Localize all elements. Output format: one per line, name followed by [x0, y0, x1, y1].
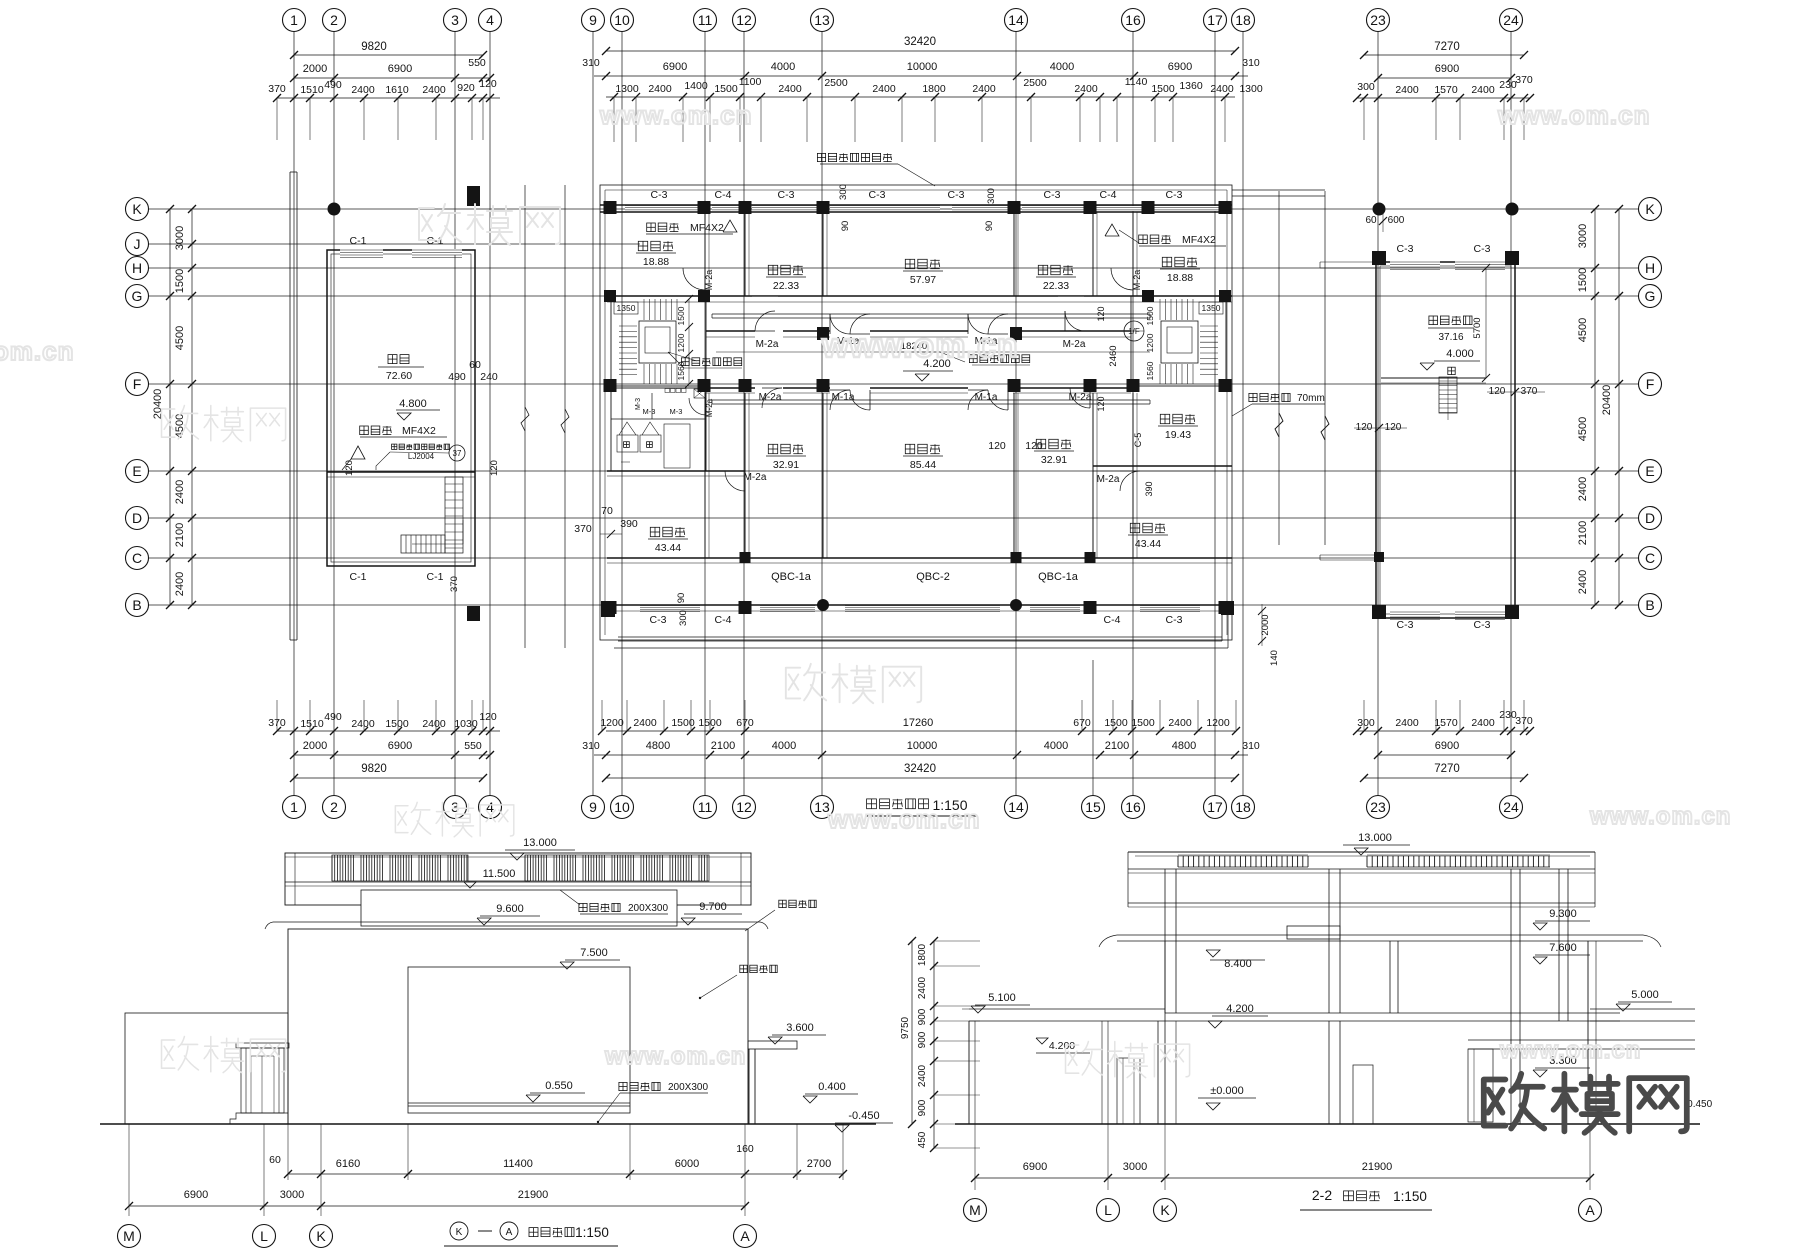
svg-text:6900: 6900 — [184, 1189, 208, 1201]
svg-text:1140: 1140 — [1125, 76, 1148, 88]
svg-text:QBC-1a: QBC-1a — [771, 571, 812, 583]
svg-text:2400: 2400 — [422, 84, 446, 96]
svg-text:2460: 2460 — [1108, 345, 1119, 366]
svg-text:J: J — [134, 236, 141, 252]
svg-text:4000: 4000 — [772, 740, 796, 752]
svg-text:QBC-2: QBC-2 — [916, 571, 950, 583]
svg-text:120: 120 — [1356, 422, 1373, 433]
svg-text:B: B — [1645, 597, 1654, 613]
svg-text:M-2a: M-2a — [744, 472, 767, 483]
svg-text:390: 390 — [620, 518, 638, 530]
svg-text:600: 600 — [1388, 215, 1405, 226]
svg-text:9.600: 9.600 — [496, 903, 524, 915]
svg-text:4800: 4800 — [646, 740, 670, 752]
svg-text:2400: 2400 — [1074, 83, 1098, 95]
svg-text:C-3: C-3 — [1166, 614, 1183, 626]
svg-text:E: E — [1645, 463, 1654, 479]
svg-text:18.88: 18.88 — [643, 256, 669, 268]
svg-text:M-2a: M-2a — [1063, 339, 1086, 350]
svg-text:M-2a: M-2a — [704, 270, 714, 291]
svg-text:C-3: C-3 — [1397, 619, 1414, 631]
svg-text:32.91: 32.91 — [1041, 454, 1067, 466]
svg-text:370: 370 — [449, 576, 460, 592]
svg-text:17: 17 — [1207, 799, 1223, 815]
svg-text:32420: 32420 — [904, 763, 936, 775]
svg-text:6000: 6000 — [675, 1158, 699, 1170]
svg-text:3.600: 3.600 — [786, 1022, 814, 1034]
svg-text:24: 24 — [1503, 12, 1519, 28]
svg-text:60: 60 — [469, 359, 481, 371]
svg-text:23: 23 — [1370, 799, 1386, 815]
svg-text:1800: 1800 — [922, 83, 946, 95]
svg-text:M-3: M-3 — [643, 407, 656, 416]
svg-text:20400: 20400 — [1601, 385, 1613, 416]
svg-text:2400: 2400 — [1210, 83, 1234, 95]
svg-text:QBC-1a: QBC-1a — [1038, 571, 1079, 583]
svg-text:E: E — [132, 463, 141, 479]
svg-text:1200: 1200 — [676, 333, 686, 352]
svg-text:490: 490 — [324, 79, 342, 91]
svg-text:C-1: C-1 — [350, 235, 367, 247]
svg-text:C-1: C-1 — [350, 571, 367, 583]
svg-text:120: 120 — [988, 440, 1006, 452]
svg-text:M: M — [969, 1202, 981, 1218]
svg-text:www.om.cn: www.om.cn — [1499, 1037, 1641, 1064]
svg-text:370: 370 — [268, 83, 286, 95]
svg-text:490: 490 — [324, 711, 342, 723]
svg-text:M-1a: M-1a — [975, 392, 998, 403]
svg-text:10: 10 — [614, 799, 630, 815]
svg-text:B: B — [132, 597, 141, 613]
svg-text:10: 10 — [614, 12, 630, 28]
svg-text:7270: 7270 — [1434, 41, 1460, 53]
svg-text:C-3: C-3 — [1474, 619, 1491, 631]
svg-text:120: 120 — [1096, 396, 1106, 411]
svg-text:M-2a: M-2a — [756, 339, 779, 350]
svg-text:1500: 1500 — [1151, 83, 1175, 95]
svg-text:1: 1 — [290, 799, 298, 815]
svg-text:A: A — [506, 1227, 513, 1238]
svg-text:900: 900 — [917, 1099, 928, 1116]
svg-text:2400: 2400 — [422, 718, 446, 730]
svg-text:1570: 1570 — [1434, 717, 1458, 729]
svg-text:2400: 2400 — [872, 83, 896, 95]
svg-text:1500: 1500 — [1145, 306, 1155, 325]
svg-text:2400: 2400 — [778, 83, 802, 95]
svg-text:C-3: C-3 — [1474, 243, 1491, 255]
svg-text:370: 370 — [1515, 74, 1533, 86]
svg-text:2400: 2400 — [633, 717, 657, 729]
svg-text:13.000: 13.000 — [523, 837, 557, 849]
svg-text:200X300: 200X300 — [628, 903, 668, 914]
svg-text:4000: 4000 — [1044, 740, 1068, 752]
svg-text:17: 17 — [1207, 12, 1223, 28]
svg-text:4500: 4500 — [1577, 417, 1589, 441]
svg-text:1300: 1300 — [615, 83, 639, 95]
svg-text:1300: 1300 — [1239, 83, 1263, 95]
svg-text:21900: 21900 — [518, 1189, 549, 1201]
svg-text:2400: 2400 — [648, 83, 672, 95]
svg-text:2400: 2400 — [351, 84, 375, 96]
svg-text:1400: 1400 — [684, 80, 708, 92]
svg-text:120: 120 — [1025, 440, 1043, 452]
svg-text:K: K — [316, 1228, 326, 1244]
svg-text:6900: 6900 — [1435, 63, 1459, 75]
svg-text:1500: 1500 — [676, 306, 686, 325]
svg-text:70mm: 70mm — [1297, 393, 1325, 404]
svg-text:1500: 1500 — [1104, 717, 1128, 729]
svg-text:160: 160 — [736, 1143, 754, 1155]
svg-text:2400: 2400 — [917, 976, 928, 999]
svg-text:2: 2 — [330, 12, 338, 28]
svg-text:D: D — [1645, 510, 1655, 526]
svg-text:M-3: M-3 — [670, 407, 683, 416]
svg-text:370: 370 — [1521, 386, 1538, 397]
svg-text:www.om.cn: www.om.cn — [1589, 803, 1731, 830]
svg-text:F: F — [1646, 376, 1655, 392]
svg-text:18.88: 18.88 — [1167, 272, 1193, 284]
svg-text:2400: 2400 — [917, 1064, 928, 1087]
svg-text:32420: 32420 — [904, 36, 936, 48]
svg-text:2700: 2700 — [807, 1158, 831, 1170]
svg-text:1560: 1560 — [1145, 361, 1155, 380]
svg-text:6900: 6900 — [663, 61, 687, 73]
svg-text:9: 9 — [589, 799, 597, 815]
svg-text:M-3: M-3 — [635, 398, 642, 410]
svg-text:7.600: 7.600 — [1549, 942, 1577, 954]
svg-text:1500: 1500 — [714, 83, 738, 95]
svg-text:12: 12 — [736, 799, 752, 815]
svg-text:5.000: 5.000 — [1631, 989, 1659, 1001]
svg-text:13.000: 13.000 — [1358, 832, 1392, 844]
svg-text:22.33: 22.33 — [1043, 280, 1069, 292]
svg-text:G: G — [1645, 288, 1656, 304]
svg-text:1030: 1030 — [454, 718, 478, 730]
svg-text:K: K — [456, 1227, 463, 1238]
svg-text:920: 920 — [457, 82, 475, 94]
svg-text:2500: 2500 — [1023, 77, 1047, 89]
svg-text:240: 240 — [480, 371, 498, 383]
svg-text:57.97: 57.97 — [910, 274, 936, 286]
svg-text:2-2: 2-2 — [1312, 1187, 1332, 1203]
svg-text:310: 310 — [1242, 57, 1260, 69]
svg-text:K: K — [132, 201, 142, 217]
svg-text:200X300: 200X300 — [668, 1082, 708, 1093]
svg-text:1610: 1610 — [385, 84, 409, 96]
svg-text:23: 23 — [1370, 12, 1386, 28]
svg-text:C-3: C-3 — [1166, 189, 1183, 201]
svg-text:2000: 2000 — [303, 740, 327, 752]
svg-text:4500: 4500 — [174, 326, 186, 350]
svg-text:450: 450 — [917, 1131, 928, 1148]
svg-text:120: 120 — [1096, 306, 1106, 321]
svg-text:2400: 2400 — [351, 718, 375, 730]
svg-text:120: 120 — [1489, 386, 1506, 397]
svg-text:±0.000: ±0.000 — [1210, 1085, 1244, 1097]
svg-text:M-2a: M-2a — [705, 398, 714, 417]
svg-text:310: 310 — [582, 740, 600, 752]
svg-text:1500: 1500 — [1577, 268, 1589, 292]
svg-text:37: 37 — [453, 449, 462, 458]
svg-text:C-4: C-4 — [715, 189, 732, 201]
svg-text:M-2a: M-2a — [759, 392, 782, 403]
svg-text:14: 14 — [1008, 12, 1024, 28]
svg-text:K: K — [1645, 201, 1655, 217]
svg-text:2400: 2400 — [174, 480, 186, 504]
svg-text:17260: 17260 — [903, 717, 934, 729]
svg-text:C-3: C-3 — [948, 189, 965, 201]
svg-text:2100: 2100 — [711, 740, 735, 752]
svg-text:3: 3 — [451, 12, 459, 28]
svg-text:5700: 5700 — [1472, 317, 1483, 338]
svg-text:140: 140 — [1269, 650, 1280, 666]
svg-text:2500: 2500 — [824, 77, 848, 89]
svg-text:1200: 1200 — [1206, 717, 1230, 729]
svg-text:2: 2 — [330, 799, 338, 815]
svg-text:4800: 4800 — [1172, 740, 1196, 752]
svg-text:85.44: 85.44 — [910, 459, 936, 471]
svg-text:550: 550 — [468, 57, 486, 69]
svg-text:6900: 6900 — [388, 740, 412, 752]
svg-text:10000: 10000 — [907, 740, 938, 752]
svg-text:M-2a: M-2a — [1132, 270, 1142, 291]
svg-text:1360: 1360 — [1179, 80, 1203, 92]
svg-text:1100: 1100 — [739, 76, 762, 88]
svg-text:2400: 2400 — [1168, 717, 1192, 729]
svg-text:3000: 3000 — [174, 226, 186, 250]
svg-text:300: 300 — [1357, 717, 1375, 729]
svg-text:32.91: 32.91 — [773, 459, 799, 471]
svg-text:120: 120 — [489, 460, 500, 476]
svg-text:24: 24 — [1503, 799, 1519, 815]
svg-text:MF4X2: MF4X2 — [1182, 234, 1216, 246]
svg-text:9820: 9820 — [361, 763, 387, 775]
svg-text:L: L — [260, 1228, 268, 1244]
svg-text:2400: 2400 — [1395, 717, 1419, 729]
svg-text:C-5: C-5 — [1133, 433, 1143, 448]
svg-text:2000: 2000 — [303, 63, 327, 75]
svg-text:2400: 2400 — [1577, 570, 1589, 594]
svg-text:C-3: C-3 — [1044, 189, 1061, 201]
svg-text:60: 60 — [1365, 215, 1377, 226]
svg-text:72.60: 72.60 — [386, 370, 412, 382]
svg-text:19.43: 19.43 — [1165, 429, 1191, 441]
svg-text:www.om.cn: www.om.cn — [827, 804, 981, 834]
svg-text:4000: 4000 — [1050, 61, 1074, 73]
svg-text:1200: 1200 — [1145, 333, 1155, 352]
svg-text:1500: 1500 — [671, 717, 695, 729]
svg-text:3000: 3000 — [280, 1189, 304, 1201]
svg-text:90: 90 — [840, 221, 851, 232]
svg-text:14: 14 — [1008, 799, 1024, 815]
svg-text:2400: 2400 — [1395, 84, 1419, 96]
svg-text:22.33: 22.33 — [773, 280, 799, 292]
svg-text:2100: 2100 — [1577, 521, 1589, 545]
svg-text:11: 11 — [698, 12, 713, 28]
svg-text:-0.450: -0.450 — [848, 1110, 879, 1122]
svg-text:490: 490 — [448, 371, 466, 383]
svg-text:4000: 4000 — [771, 61, 795, 73]
svg-text:F: F — [133, 376, 142, 392]
svg-text:0.400: 0.400 — [818, 1081, 846, 1093]
svg-text:1: 1 — [290, 12, 298, 28]
svg-text:1570: 1570 — [1434, 84, 1458, 96]
svg-text:1560: 1560 — [676, 361, 686, 380]
svg-text:390: 390 — [1144, 481, 1154, 496]
svg-text:60: 60 — [269, 1154, 281, 1166]
svg-text:H: H — [132, 260, 142, 276]
svg-text:6900: 6900 — [388, 63, 412, 75]
svg-text:1/F: 1/F — [1128, 327, 1140, 336]
svg-text:C-3: C-3 — [778, 189, 795, 201]
svg-text:70: 70 — [601, 505, 613, 517]
svg-text:1500: 1500 — [174, 269, 186, 293]
svg-text:10000: 10000 — [907, 61, 938, 73]
svg-text:9820: 9820 — [361, 41, 387, 53]
svg-text:www.om.cn: www.om.cn — [599, 100, 753, 130]
svg-text:C-1: C-1 — [427, 571, 444, 583]
svg-text:4: 4 — [486, 12, 494, 28]
svg-text:6160: 6160 — [336, 1158, 360, 1170]
svg-text:D: D — [132, 510, 142, 526]
svg-text:www.om.cn: www.om.cn — [821, 327, 1019, 365]
svg-text:90: 90 — [676, 593, 687, 604]
svg-text:7270: 7270 — [1434, 763, 1460, 775]
svg-text:K: K — [1160, 1202, 1170, 1218]
svg-text:G: G — [132, 288, 143, 304]
svg-text:2400: 2400 — [1471, 717, 1495, 729]
svg-text:300: 300 — [838, 184, 849, 200]
svg-text:5.100: 5.100 — [988, 992, 1016, 1004]
svg-text:2400: 2400 — [174, 572, 186, 596]
svg-text:1350: 1350 — [1202, 303, 1221, 313]
svg-text:C-4: C-4 — [1104, 614, 1121, 626]
svg-text:310: 310 — [582, 57, 600, 69]
svg-text:4.200: 4.200 — [1226, 1003, 1254, 1015]
svg-text:300: 300 — [678, 610, 689, 626]
svg-text:43.44: 43.44 — [1135, 538, 1161, 550]
svg-text:3000: 3000 — [1123, 1161, 1147, 1173]
svg-text:C: C — [132, 550, 142, 566]
svg-text:MF4X2: MF4X2 — [690, 222, 724, 234]
svg-text:1:150: 1:150 — [575, 1225, 609, 1240]
svg-text:7.500: 7.500 — [580, 947, 608, 959]
svg-text:11: 11 — [698, 799, 713, 815]
svg-text:900: 900 — [917, 1031, 928, 1048]
svg-text:1200: 1200 — [600, 717, 624, 729]
svg-text:1510: 1510 — [300, 84, 324, 96]
svg-text:4500: 4500 — [174, 414, 186, 438]
svg-text:1350: 1350 — [617, 303, 636, 313]
svg-text:370: 370 — [574, 523, 592, 535]
svg-text:9.300: 9.300 — [1549, 908, 1577, 920]
svg-text:11.500: 11.500 — [483, 868, 516, 880]
svg-text:120: 120 — [479, 711, 497, 723]
svg-text:1500: 1500 — [1131, 717, 1155, 729]
svg-text:www.om.cn: www.om.cn — [0, 336, 75, 366]
svg-text:2000: 2000 — [1260, 614, 1271, 635]
svg-text:13: 13 — [814, 12, 830, 28]
svg-text:MF4X2: MF4X2 — [402, 425, 436, 437]
svg-text:LJ2004: LJ2004 — [408, 452, 435, 461]
svg-text:9750: 9750 — [900, 1016, 911, 1039]
svg-text:550: 550 — [464, 740, 482, 752]
svg-text:C-4: C-4 — [1100, 189, 1117, 201]
svg-text:18: 18 — [1235, 12, 1251, 28]
svg-text:12: 12 — [736, 12, 752, 28]
svg-text:6900: 6900 — [1023, 1161, 1047, 1173]
svg-text:1500: 1500 — [385, 718, 409, 730]
svg-text:2400: 2400 — [972, 83, 996, 95]
svg-text:0.550: 0.550 — [545, 1080, 573, 1092]
svg-text:2100: 2100 — [1105, 740, 1129, 752]
svg-text:4.200: 4.200 — [1049, 1040, 1075, 1052]
svg-text:9: 9 — [589, 12, 597, 28]
svg-text:C-3: C-3 — [869, 189, 886, 201]
svg-text:900: 900 — [917, 1008, 928, 1025]
svg-text:1800: 1800 — [917, 943, 928, 966]
svg-text:37.16: 37.16 — [1438, 332, 1463, 343]
svg-text:C-3: C-3 — [651, 189, 668, 201]
svg-text:18: 18 — [1235, 799, 1251, 815]
svg-text:1:150: 1:150 — [1393, 1189, 1427, 1204]
svg-text:16: 16 — [1125, 12, 1141, 28]
svg-text:4.800: 4.800 — [399, 398, 427, 410]
svg-text:300: 300 — [1357, 81, 1375, 93]
svg-text:4.000: 4.000 — [1446, 348, 1474, 360]
svg-text:H: H — [1645, 260, 1655, 276]
svg-text:A: A — [740, 1228, 750, 1244]
svg-text:300: 300 — [986, 188, 997, 204]
svg-text:16: 16 — [1125, 799, 1141, 815]
svg-text:90: 90 — [984, 221, 995, 232]
svg-text:A: A — [1585, 1202, 1595, 1218]
svg-text:4500: 4500 — [1577, 318, 1589, 342]
svg-text:M-1a: M-1a — [832, 392, 855, 403]
svg-text:120: 120 — [344, 460, 355, 476]
svg-text:C-3: C-3 — [650, 614, 667, 626]
svg-text:9.700: 9.700 — [699, 901, 727, 913]
svg-text:6900: 6900 — [1168, 61, 1192, 73]
svg-text:www.om.cn: www.om.cn — [1497, 100, 1651, 130]
svg-text:2400: 2400 — [1471, 84, 1495, 96]
svg-text:43.44: 43.44 — [655, 542, 681, 554]
svg-text:L: L — [1104, 1202, 1112, 1218]
svg-text:310: 310 — [1242, 740, 1260, 752]
svg-text:2400: 2400 — [1577, 477, 1589, 501]
svg-text:15: 15 — [1085, 799, 1101, 815]
svg-text:www.om.cn: www.om.cn — [604, 1043, 746, 1070]
svg-text:M-2a: M-2a — [1097, 474, 1120, 485]
svg-text:6900: 6900 — [1435, 740, 1459, 752]
svg-text:C-4: C-4 — [715, 614, 732, 626]
svg-text:21900: 21900 — [1362, 1161, 1393, 1173]
svg-text:1510: 1510 — [300, 718, 324, 730]
svg-text:C-3: C-3 — [1397, 243, 1414, 255]
svg-text:120: 120 — [479, 78, 497, 90]
svg-text:11400: 11400 — [503, 1158, 533, 1170]
svg-text:M: M — [123, 1228, 135, 1244]
svg-text:120: 120 — [1385, 422, 1402, 433]
svg-text:3000: 3000 — [1577, 224, 1589, 248]
svg-text:C: C — [1645, 550, 1655, 566]
svg-text:2100: 2100 — [174, 523, 186, 547]
